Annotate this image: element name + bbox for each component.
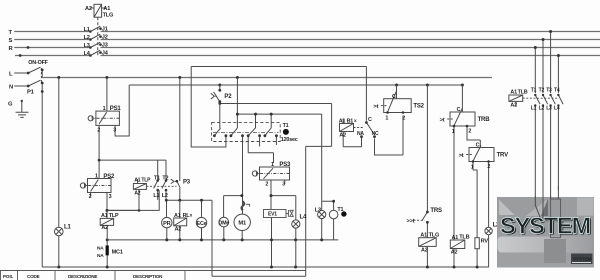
svg-text:DESCRIPTION: DESCRIPTION	[133, 274, 163, 279]
svg-text:SYSTEM: SYSTEM	[500, 213, 591, 239]
svg-text:2: 2	[265, 182, 268, 188]
svg-text:A1: A1	[134, 178, 140, 184]
terminal dots TS2	[386, 111, 404, 114]
node TLP A2 junction	[138, 209, 141, 212]
contactor TLB main contacts T1-L1..T4-L4	[535, 95, 563, 197]
svg-text:T2: T2	[539, 87, 545, 93]
relay coil TLP	[107, 179, 146, 210]
main wire 1 (from T)	[550, 32, 552, 94]
svg-text:J3: J3	[102, 43, 108, 49]
svg-text:NC: NC	[372, 131, 379, 137]
wire P2 to cam contact1	[219, 104, 221, 129]
nodes on N bus	[57, 266, 478, 269]
svg-text:PS1: PS1	[110, 106, 122, 112]
svg-text:PR: PR	[163, 221, 171, 227]
svg-text:L2: L2	[539, 106, 545, 112]
svg-text:G: G	[8, 101, 13, 107]
ground symbol	[16, 101, 29, 118]
phase rail S	[14, 39, 600, 41]
node on rail R	[27, 46, 30, 49]
SYSTEM logo lettering	[500, 213, 593, 265]
svg-text:L1: L1	[153, 193, 159, 199]
svg-text:B1: B1	[347, 119, 354, 125]
svg-text:A1: A1	[174, 213, 181, 219]
svg-text:L1: L1	[531, 106, 537, 112]
svg-text:A2: A2	[101, 225, 108, 231]
motor DMe	[219, 196, 242, 240]
svg-text:1: 1	[385, 115, 388, 121]
svg-text:C: C	[457, 107, 461, 113]
wire TRV-1 to RV	[473, 170, 477, 238]
node T1 feed	[332, 200, 335, 203]
svg-text:1: 1	[452, 129, 455, 135]
dashed linkage TLB top	[523, 97, 559, 99]
timer motor dot	[341, 211, 346, 216]
svg-text:C: C	[368, 117, 372, 123]
svg-text:A1: A1	[510, 90, 517, 96]
node M1/DMe	[240, 194, 243, 197]
relay coil TLP2	[100, 218, 113, 245]
wire PS3-3 stub	[284, 180, 286, 184]
svg-text:DESCRIZIONE: DESCRIZIONE	[68, 274, 97, 279]
contactor TLG linkage (dashed)	[97, 17, 99, 56]
svg-text:T1: T1	[283, 123, 289, 129]
svg-text:A1: A1	[103, 6, 110, 12]
svg-text:T1: T1	[154, 175, 160, 181]
wire P2 out rail	[212, 104, 332, 277]
svg-text:>t: >t	[440, 117, 445, 123]
lamp L4	[292, 220, 300, 267]
svg-text:PS3: PS3	[279, 162, 291, 168]
svg-text:TLP: TLP	[109, 213, 119, 219]
contact terminal dots TLG	[89, 27, 102, 56]
svg-text:>t: >t	[373, 104, 378, 110]
svg-text:L3: L3	[315, 207, 322, 213]
svg-text:TRS: TRS	[430, 208, 442, 214]
neutral bus N2 (after MC1)	[107, 239, 338, 241]
svg-text:EV1: EV1	[268, 212, 277, 218]
svg-text:M1: M1	[238, 221, 247, 227]
node ECe feed	[200, 199, 203, 202]
node on rail row4	[19, 54, 22, 57]
cam contact 3	[248, 128, 273, 163]
svg-text:P1: P1	[27, 90, 35, 96]
relay coil TLG (bottom)	[419, 238, 437, 267]
contact TLG L4-J4	[90, 50, 100, 55]
svg-text:TRB: TRB	[478, 117, 491, 123]
relay coil TLB (bottom)	[450, 238, 465, 267]
svg-text:J2: J2	[102, 35, 108, 41]
svg-text:A2: A2	[451, 249, 458, 255]
svg-text:RV: RV	[481, 238, 489, 244]
title block table	[0, 271, 306, 280]
svg-text:C: C	[392, 94, 396, 100]
pressure switch PS2	[80, 179, 159, 219]
svg-text:A1: A1	[101, 213, 108, 219]
svg-text:C: C	[476, 143, 480, 149]
microswitch MC1	[106, 245, 109, 255]
svg-text:2: 2	[97, 128, 100, 134]
svg-text:SYSTEM: SYSTEM	[573, 257, 592, 263]
cam contact 4	[265, 128, 277, 145]
contact TLP T1-L1	[154, 181, 158, 200]
cam feed rail	[237, 114, 321, 201]
dashed linkage TLP contacts	[146, 185, 176, 187]
svg-text:P2: P2	[224, 94, 232, 100]
node PS2-3 branch	[106, 209, 109, 212]
svg-text:L1: L1	[84, 27, 90, 33]
svg-text:T2: T2	[162, 175, 168, 181]
relay coil B1	[340, 119, 362, 147]
svg-text:T1: T1	[337, 207, 343, 213]
contact TLG L3-J3	[90, 42, 100, 47]
svg-text:L3: L3	[546, 106, 552, 112]
main wire 4 (from N row)	[557, 56, 559, 94]
bus nodes on L bus	[57, 76, 239, 79]
timer TS2	[381, 85, 411, 113]
neutral rail row4	[15, 55, 600, 57]
nodes on control rail	[218, 84, 464, 87]
switch P1 pole L	[14, 67, 42, 77]
neutral bus N	[42, 266, 489, 268]
relay coil RLx	[174, 200, 187, 240]
svg-text:ON-OFF: ON-OFF	[28, 60, 48, 66]
svg-text:POS.: POS.	[3, 274, 13, 279]
node TLP-L2 out	[165, 199, 168, 202]
wire funnel into logo	[535, 186, 558, 222]
timer motor T1	[322, 201, 338, 240]
svg-text:MC1: MC1	[112, 249, 123, 255]
svg-text:1: 1	[471, 164, 474, 170]
bus L (after P1)	[42, 77, 492, 79]
node P3/RL	[178, 199, 181, 202]
lamp PR	[162, 217, 172, 239]
svg-text:J1: J1	[102, 27, 108, 33]
dashed linkage B1	[354, 127, 364, 129]
svg-text:2: 2	[89, 194, 92, 200]
svg-text:3: 3	[113, 127, 116, 133]
svg-text:L4: L4	[84, 51, 91, 57]
switch P1 linkage (dashed)	[40, 68, 42, 84]
SYSTEM logo box background	[497, 197, 594, 268]
svg-text:TS2: TS2	[413, 104, 424, 110]
svg-text:NA: NA	[97, 253, 104, 259]
svg-text:2: 2	[487, 164, 490, 170]
svg-text:>t: >t	[459, 153, 464, 159]
svg-text:L2: L2	[162, 193, 168, 199]
load box outline over logo	[551, 199, 561, 238]
wire PS3-2 to EV1 and L4	[271, 196, 296, 220]
svg-text:T4: T4	[554, 87, 560, 93]
lamp L2	[485, 227, 492, 267]
node P2 out	[218, 102, 221, 105]
svg-text:3: 3	[109, 194, 112, 200]
phase rail R	[14, 47, 600, 49]
svg-text:A2: A2	[175, 227, 182, 233]
pressure switch PS3	[252, 167, 289, 196]
svg-text:A2: A2	[134, 190, 140, 196]
switch P1 pole N	[14, 80, 42, 267]
svg-text:A2: A2	[85, 6, 92, 12]
pressure switch PS1	[88, 78, 166, 180]
svg-text:S: S	[9, 38, 13, 44]
svg-text:L2: L2	[84, 35, 90, 41]
motor M1 with protector	[234, 142, 250, 240]
solenoid valve EV1	[264, 210, 294, 268]
timer TRB	[447, 85, 480, 238]
main wire 3 (from R)	[534, 48, 536, 94]
svg-text:DMe: DMe	[218, 220, 229, 226]
svg-text:A1: A1	[420, 233, 427, 239]
svg-text:1: 1	[103, 106, 106, 112]
lamp L3	[318, 201, 326, 240]
svg-text:A2: A2	[339, 132, 346, 138]
svg-text:2: 2	[402, 115, 405, 121]
lamp L1	[55, 227, 64, 267]
svg-text:2: 2	[468, 129, 471, 135]
contactor TLG coil (top)	[94, 4, 102, 17]
svg-text:A1: A1	[339, 119, 346, 125]
svg-text:TLG: TLG	[429, 233, 440, 239]
switch P3	[171, 78, 180, 201]
svg-text:TLB: TLB	[459, 235, 469, 241]
contact TLG L1-J1	[90, 26, 100, 31]
svg-text:T1: T1	[531, 87, 537, 93]
timer T1 cam box (dashed)	[212, 123, 281, 142]
svg-text:P3: P3	[183, 179, 191, 185]
resistor RV	[475, 238, 479, 267]
timer TRV	[466, 146, 494, 228]
cam motor dot	[283, 129, 289, 135]
svg-text:N: N	[9, 84, 13, 90]
wire bus drop to cam	[236, 78, 238, 129]
svg-text:120sec: 120sec	[281, 137, 298, 143]
cam contact 1	[191, 67, 226, 148]
svg-text:TLG: TLG	[103, 13, 114, 19]
svg-text:TRV: TRV	[497, 152, 508, 158]
contact TLG L2-J2	[90, 34, 100, 39]
net wire P3 out	[166, 200, 212, 217]
svg-text:A2: A2	[510, 103, 517, 109]
svg-text:ECe: ECe	[197, 221, 207, 227]
motor ECe	[196, 200, 206, 240]
svg-text:TLB: TLB	[518, 90, 528, 96]
svg-text:TLP: TLP	[141, 178, 151, 184]
node PS3-2	[270, 194, 273, 197]
contactor TLB coil (top right)	[509, 95, 523, 106]
svg-text:1: 1	[95, 174, 98, 180]
main wire 2 (from S)	[542, 40, 544, 94]
changeover contact B1	[366, 116, 403, 156]
control rail (PS1-3 net)	[129, 84, 462, 86]
svg-text:L3: L3	[84, 43, 90, 49]
svg-text:NA: NA	[357, 131, 364, 137]
svg-text:NA: NA	[97, 246, 104, 252]
thermal contact TRS	[414, 85, 428, 238]
cam linkage line (dash-dot)	[213, 132, 279, 134]
wire L1 lamp drop	[58, 78, 60, 228]
svg-text:>>t: >>t	[407, 219, 415, 225]
svg-text:PS2: PS2	[103, 174, 115, 180]
svg-text:1: 1	[271, 162, 274, 168]
contact TLP T2-L2	[162, 181, 166, 200]
node PS1-2 branch	[98, 159, 101, 162]
phase rail T	[14, 31, 600, 33]
svg-text:A2: A2	[421, 247, 428, 253]
cam contact 2	[231, 128, 243, 142]
svg-text:CODE: CODE	[27, 274, 40, 279]
svg-text:A1: A1	[452, 235, 459, 241]
pressure switch P2	[211, 85, 220, 104]
svg-text:L4: L4	[300, 215, 307, 221]
wire contact1 loop top	[191, 67, 366, 121]
svg-text:L4: L4	[554, 106, 560, 112]
svg-text:L1: L1	[64, 225, 71, 231]
nodes on N2 bus	[106, 238, 324, 241]
svg-text:T3: T3	[546, 87, 552, 93]
